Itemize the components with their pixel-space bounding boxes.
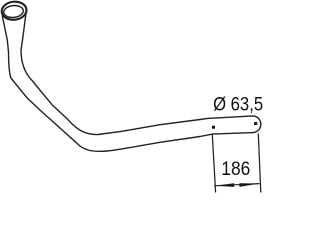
svg-text:186: 186	[221, 159, 250, 180]
pipe opening inner ellipse	[3, 5, 24, 19]
dimension anchor dot left	[212, 126, 215, 129]
dimension arrow right	[239, 183, 259, 187]
pipe top edge (right edge of inlet, top of run, rounded end cap)	[21, 14, 261, 135]
pipe body fill	[2, 14, 261, 151]
dimension arrow left	[214, 183, 234, 187]
dimension line 186	[214, 184, 259, 186]
pipe opening outer ellipse rim	[1, 0, 28, 20]
extension line right	[258, 133, 261, 192]
extension line left	[212, 134, 215, 192]
dimension anchor dot right	[254, 122, 257, 125]
pipe bottom edge (left edge of inlet, bottom of run)	[2, 16, 253, 151]
svg-text:Ø 63,5: Ø 63,5	[213, 95, 263, 116]
